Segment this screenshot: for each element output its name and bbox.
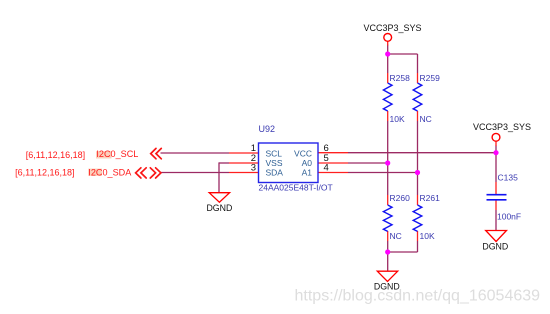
svg-text:C135: C135	[498, 173, 519, 183]
svg-text:[6,11,12,16,18]: [6,11,12,16,18]	[15, 167, 74, 177]
svg-text:SCL: SCL	[266, 148, 283, 158]
svg-text:4: 4	[324, 163, 329, 174]
svg-text:VCC3P3_SYS: VCC3P3_SYS	[363, 23, 421, 33]
svg-text:A0: A0	[302, 158, 313, 168]
svg-text:VCC: VCC	[294, 148, 312, 158]
svg-text:https://blog.csdn.net/qq_16054: https://blog.csdn.net/qq_16054639	[295, 287, 541, 304]
svg-text:R259: R259	[420, 73, 441, 83]
svg-text:R261: R261	[420, 193, 441, 203]
svg-text:NC: NC	[390, 231, 402, 241]
svg-text:3: 3	[251, 163, 256, 174]
svg-text:VCC3P3_SYS: VCC3P3_SYS	[473, 122, 531, 132]
svg-text:NC: NC	[420, 114, 432, 124]
svg-text:I2C0_SCL: I2C0_SCL	[96, 149, 138, 159]
svg-text:24AA025E48T-I/OT: 24AA025E48T-I/OT	[259, 183, 333, 193]
svg-text:10K: 10K	[390, 114, 405, 124]
svg-text:VSS: VSS	[266, 158, 283, 168]
svg-text:DGND: DGND	[482, 242, 508, 252]
svg-text:SDA: SDA	[266, 168, 284, 178]
svg-text:R258: R258	[390, 73, 411, 83]
svg-text:U92: U92	[259, 124, 276, 134]
svg-text:A1: A1	[302, 168, 313, 178]
svg-text:[6,11,12,16,18]: [6,11,12,16,18]	[26, 150, 85, 160]
svg-text:R260: R260	[390, 193, 411, 203]
svg-text:100nF: 100nF	[497, 212, 521, 222]
svg-text:10K: 10K	[420, 231, 435, 241]
svg-text:I2C0_SDA: I2C0_SDA	[88, 167, 132, 177]
svg-text:DGND: DGND	[206, 203, 232, 213]
